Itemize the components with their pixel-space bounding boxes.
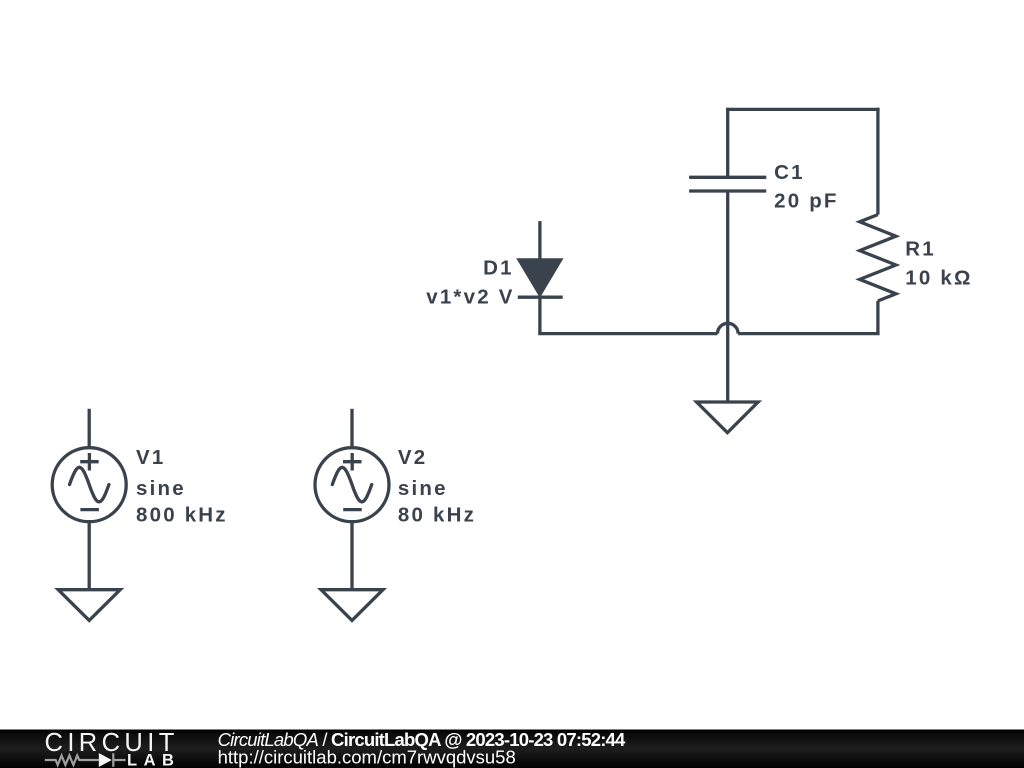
logo diode triangle [99, 753, 112, 767]
wire R1 bottom lead [738, 301, 880, 335]
svg-text:C1: C1 [774, 161, 805, 184]
svg-text:V2: V2 [398, 446, 427, 469]
ground V2 [321, 590, 383, 621]
logo resistor glyph [45, 753, 126, 767]
diode D1 [518, 221, 563, 297]
svg-text:sine: sine [136, 477, 186, 500]
voltage source V1 [52, 409, 126, 590]
svg-text:D1: D1 [483, 257, 514, 280]
svg-text:v1*v2 V: v1*v2 V [426, 286, 514, 309]
capacitor C1 [689, 177, 766, 191]
logo diode cathode bar [112, 753, 114, 767]
wire C1 bottom to ground [726, 191, 729, 402]
wire R1 top lead [876, 108, 879, 215]
svg-text:80 kHz: 80 kHz [398, 504, 476, 527]
svg-text:R1: R1 [905, 238, 936, 261]
svg-text:800 kHz: 800 kHz [136, 504, 228, 527]
wire C1 top lead [726, 108, 729, 178]
resistor R1 [860, 215, 896, 301]
ground main [697, 402, 759, 433]
svg-text:http://circuitlab.com/cm7rwvqd: http://circuitlab.com/cm7rwvqdvsu58 [218, 747, 516, 768]
svg-text:20 pF: 20 pF [774, 190, 839, 213]
wire bottom net to diode [538, 297, 717, 335]
svg-text:10 kΩ: 10 kΩ [905, 266, 972, 289]
wire top net [726, 108, 880, 111]
voltage source V2 [315, 409, 389, 590]
svg-text:sine: sine [398, 477, 448, 500]
svg-text:V1: V1 [136, 446, 165, 469]
ground V1 [58, 590, 120, 621]
footer bar [0, 730, 1024, 768]
wire crossover hop [718, 323, 739, 333]
svg-text:LAB: LAB [127, 751, 180, 768]
